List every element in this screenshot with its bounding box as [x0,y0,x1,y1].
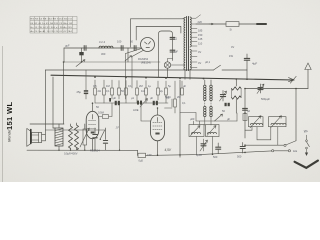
svg-text:An 20 5m A1 10 220 24 0V 4V 2A: An 20 5m A1 10 220 24 0V 4V 2A1 [31,30,73,33]
svg-text:Hz 15 1W L4 5V 300 a1 28 An 20: Hz 15 1W L4 5V 300 a1 28 An 205 [31,26,73,29]
svg-text:µµF: µµF [65,44,70,48]
svg-text:µF: µF [227,117,230,121]
svg-text:500: 500 [237,155,242,159]
svg-text:·FTF: ·FTF [147,153,153,157]
svg-text:0µ5: 0µ5 [139,159,144,163]
svg-text:150: 150 [198,33,203,37]
svg-text:110: 110 [198,42,203,46]
svg-text:2µ: 2µ [160,89,163,93]
svg-text:4V: 4V [198,50,201,54]
svg-text:0,5: 0,5 [93,84,97,88]
svg-text:(RE134): (RE134) [141,61,151,65]
svg-text:E.E: E.E [293,150,297,153]
svg-text:1µ: 1µ [148,84,151,88]
svg-text:0,1: 0,1 [174,37,178,41]
svg-text:2µF: 2µF [174,50,179,54]
svg-text:RG N3 54 RE 134 RE S164 B24 01: RG N3 54 RE 134 RE S164 B24 01 [31,19,74,21]
svg-text:µ0,1: µ0,1 [205,60,211,64]
svg-text:RES164: RES164 [90,149,100,153]
svg-text:0,1: 0,1 [106,89,110,93]
svg-text:151 WL: 151 WL [5,102,14,130]
svg-text:0,1: 0,1 [182,101,186,105]
svg-text:5µ: 5µ [168,84,171,88]
svg-text:4,5V: 4,5V [165,148,172,152]
svg-text:3·2·4: 3·2·4 [99,40,106,44]
svg-text:J.F: J.F [116,126,120,130]
svg-text:4V: 4V [231,45,234,49]
svg-text:1W: 1W [229,54,233,58]
svg-text:125: 125 [198,37,203,41]
svg-text:5MΩ: 5MΩ [165,95,171,99]
svg-text:2M: 2M [139,84,143,88]
svg-text:300: 300 [101,52,106,56]
svg-text:500µµF: 500µµF [261,97,270,101]
svg-text:W¹: W¹ [304,130,308,134]
svg-text:4V: 4V [198,61,201,65]
svg-text:25µ: 25µ [77,90,82,94]
svg-text:1M: 1M [106,84,110,88]
svg-text:4µF: 4µF [252,62,257,66]
svg-text:2Ω: 2Ω [98,89,101,93]
svg-text:µF: µF [113,96,116,100]
svg-text:µF: µF [183,84,186,88]
svg-text:µF: µF [150,96,153,100]
svg-text:µ00: µ00 [190,117,195,121]
svg-text:500: 500 [213,155,218,159]
svg-text:0,5µF/400V: 0,5µF/400V [64,152,78,156]
svg-text:1Ω: 1Ω [141,89,144,93]
svg-text:4µ00: 4µ00 [196,153,202,157]
svg-text:100: 100 [117,40,122,44]
svg-text:0,5M: 0,5M [98,111,104,115]
svg-text:0,1: 0,1 [128,84,132,88]
svg-text:185: 185 [198,29,203,33]
svg-text:64 B2 40 1a 4V 2A 220 V5 0Hz 1: 64 B2 40 1a 4V 2A 220 V5 0Hz 1W [31,22,74,25]
svg-text:AOE: AOE [133,108,139,112]
svg-text:220: 220 [198,20,203,24]
svg-text:2M: 2M [177,95,181,99]
svg-text:RGN354: RGN354 [138,57,149,61]
